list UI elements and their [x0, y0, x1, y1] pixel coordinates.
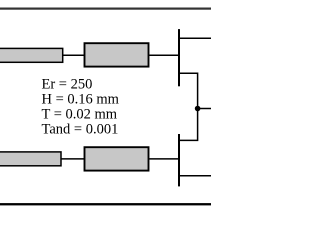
wire TL1 to TL2	[62, 54, 84, 56]
wire TL4 to Q2 base	[149, 158, 179, 160]
microstrip TL3	[0, 152, 61, 166]
top border	[0, 8, 211, 10]
svg-text:Er = 250: Er = 250	[42, 77, 93, 93]
wire node to right edge	[198, 108, 211, 110]
transistor Q1 emitter wire	[179, 73, 198, 108]
svg-text:H = 0.16 mm: H = 0.16 mm	[42, 92, 120, 108]
svg-text:Tand = 0.001: Tand = 0.001	[42, 122, 119, 138]
microstrip TL2	[85, 43, 149, 66]
transistor Q1 base bar	[178, 29, 180, 86]
node junction dot	[195, 106, 201, 112]
wire TL3 to TL4	[61, 158, 84, 160]
transistor Q2 emitter wire	[179, 175, 211, 177]
transistor Q2 collector wire	[179, 109, 198, 141]
transistor Q2 base bar	[178, 134, 180, 186]
microstrip TL4	[85, 147, 149, 170]
transistor Q1 collector wire	[179, 37, 211, 39]
wire TL2 to Q1 base	[149, 54, 179, 56]
microstrip TL1	[0, 48, 63, 62]
svg-text:T = 0.02 mm: T = 0.02 mm	[42, 107, 118, 123]
bottom border	[0, 203, 211, 205]
